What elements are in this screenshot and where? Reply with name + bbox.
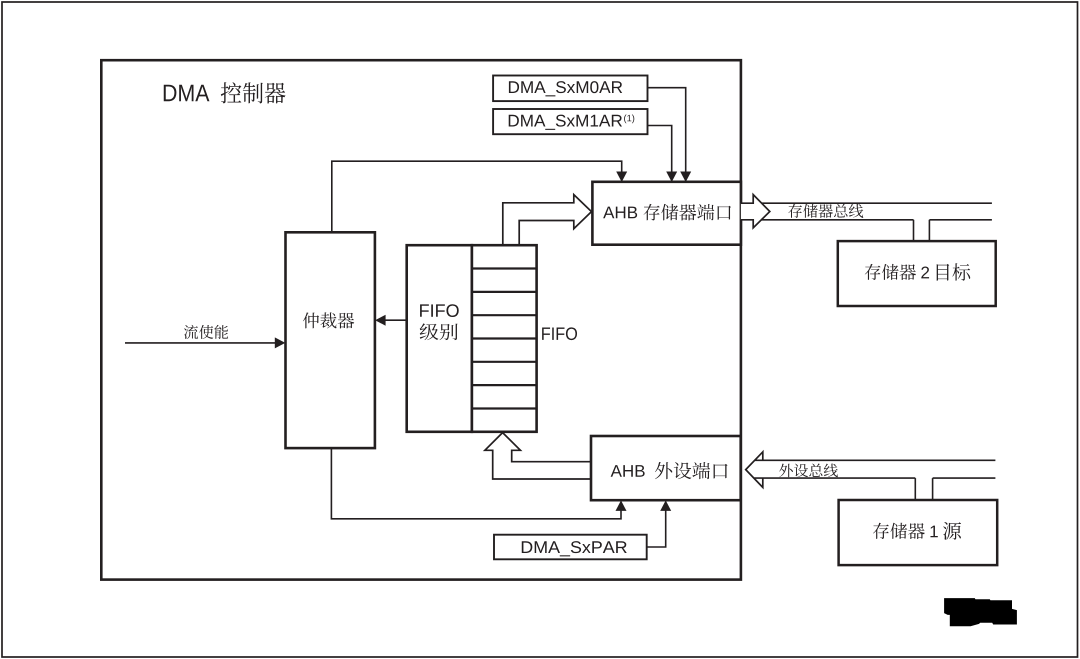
- wire: peripheral bus lower line right part: [933, 477, 996, 479]
- wire: arbiter to AHB memory port: [332, 161, 622, 232]
- wire: peripheral bus lower line left part: [754, 477, 915, 479]
- wire: peripheral bus upper line: [755, 459, 995, 461]
- wire: peripheral bus tap left: [914, 478, 916, 500]
- label: 仲裁器: [303, 312, 354, 328]
- wire: arbiter to AHB peripheral port: [331, 448, 621, 519]
- label: DMA_SxPAR: [522, 541, 627, 556]
- label: DMA_SxM0AR: [509, 81, 622, 96]
- wire: peripheral bus tap right: [932, 478, 934, 500]
- label: 流使能: [184, 325, 228, 339]
- wire: memory bus upper line: [762, 202, 992, 204]
- label: DMA_SxM1AR(1): [509, 115, 622, 130]
- box: FIFO stack: [472, 245, 537, 432]
- box: DMA controller: [101, 60, 741, 579]
- label: 存储器总线: [788, 204, 863, 218]
- label: FIFO 级别: [420, 304, 459, 317]
- label: 存储器 1 源: [873, 523, 925, 539]
- box: AHB peripheral port: [591, 436, 741, 500]
- open arrow: memory bus out of AHB memory port: [741, 195, 770, 228]
- label: FIFO: [542, 327, 577, 340]
- wire: memory bus lower line right part: [929, 219, 992, 221]
- open arrow: FIFO to AHB memory port: [503, 195, 592, 245]
- wire: DMA_SxM0AR to AHB memory port: [648, 88, 686, 174]
- wire: DMA_SxPAR to AHB peripheral port: [647, 509, 666, 547]
- box: arbiter 仲裁器: [286, 232, 375, 448]
- watermark blob: [944, 598, 1017, 626]
- wire: memory bus tap right: [928, 220, 930, 241]
- box: memory 2 destination: [838, 241, 996, 306]
- box: DMA_SxM1AR register: [493, 109, 647, 134]
- box: FIFO level (FIFO 级别): [407, 245, 472, 432]
- wire: memory bus lower line left part: [762, 219, 914, 221]
- box: DMA_SxM0AR register: [493, 76, 647, 102]
- wire: DMA_SxM1AR to AHB memory port: [648, 126, 672, 175]
- open arrow head: peripheral bus into DMA: [746, 452, 763, 488]
- box: memory 1 source: [839, 500, 998, 565]
- FIFO stack divider lines: [472, 269, 537, 409]
- label: DMA 控制器 title: [164, 85, 210, 102]
- label: 外设总线: [779, 464, 838, 478]
- wire: FIFO level to arbiter: [384, 319, 407, 321]
- box: DMA_SxPAR register: [494, 535, 647, 560]
- wire: memory bus tap left: [913, 220, 915, 241]
- label: AHB 外设端口: [611, 465, 645, 477]
- label: AHB 存储器端口: [603, 207, 637, 219]
- open arrow: AHB peripheral port to FIFO: [485, 433, 592, 479]
- label: 存储器 2 目标: [865, 264, 916, 280]
- box: AHB memory port: [592, 182, 741, 245]
- wire: stream enable 流使能: [125, 342, 277, 344]
